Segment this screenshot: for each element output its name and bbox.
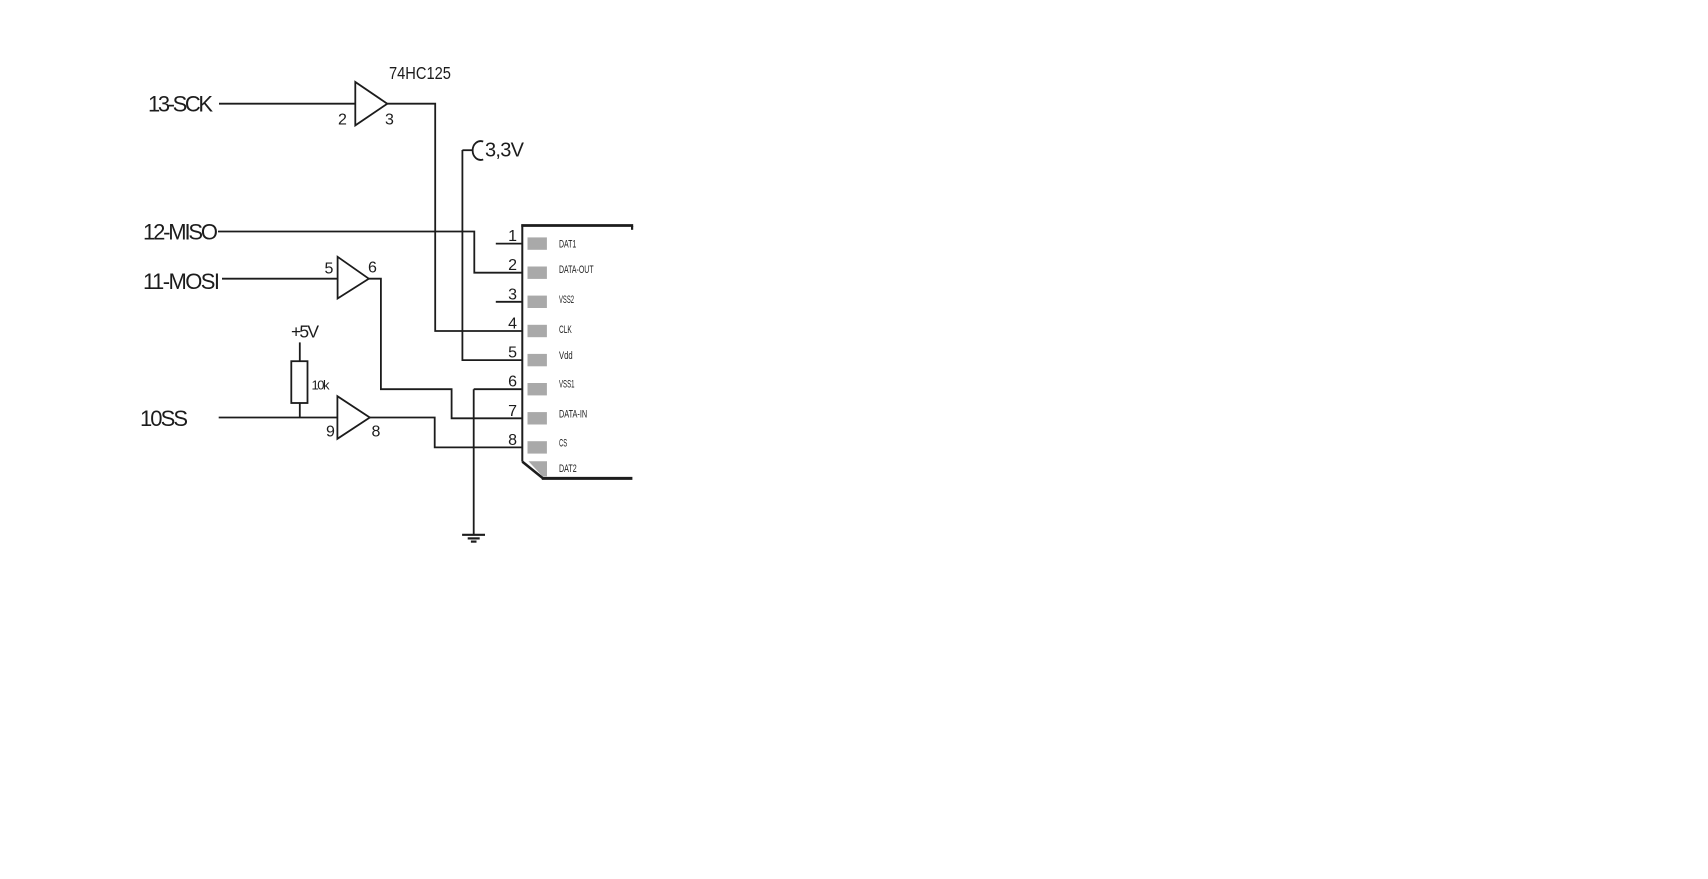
svg-text:8: 8 xyxy=(508,432,517,449)
svg-text:7: 7 xyxy=(508,403,517,420)
svg-text:VSS2: VSS2 xyxy=(559,293,574,305)
svg-text:8: 8 xyxy=(372,423,381,440)
svg-text:3: 3 xyxy=(508,286,517,303)
svg-text:+5V: +5V xyxy=(291,321,319,341)
svg-text:DAT1: DAT1 xyxy=(559,238,576,250)
svg-text:Vdd: Vdd xyxy=(559,350,573,361)
svg-text:DATA-OUT: DATA-OUT xyxy=(559,263,594,275)
svg-text:3,3V: 3,3V xyxy=(485,140,525,162)
svg-text:11-MOSI: 11-MOSI xyxy=(143,269,219,294)
svg-text:2: 2 xyxy=(508,257,517,274)
svg-text:CS: CS xyxy=(559,437,567,449)
svg-text:CLK: CLK xyxy=(559,323,572,335)
svg-text:10SS: 10SS xyxy=(140,406,187,431)
svg-text:6: 6 xyxy=(508,374,517,391)
svg-text:5: 5 xyxy=(508,345,517,362)
svg-text:10k: 10k xyxy=(312,378,330,393)
svg-text:DAT2: DAT2 xyxy=(559,463,577,475)
svg-text:4: 4 xyxy=(508,315,517,332)
svg-text:2: 2 xyxy=(338,112,347,129)
svg-text:3: 3 xyxy=(385,112,394,129)
svg-text:9: 9 xyxy=(326,423,335,440)
svg-text:DATA-IN: DATA-IN xyxy=(559,408,587,420)
svg-text:13-SCK: 13-SCK xyxy=(148,92,213,117)
svg-text:1: 1 xyxy=(508,228,517,245)
svg-text:5: 5 xyxy=(325,261,334,278)
svg-text:6: 6 xyxy=(368,259,377,276)
svg-text:12-MISO: 12-MISO xyxy=(143,220,218,245)
svg-text:VSS1: VSS1 xyxy=(559,378,575,390)
svg-text:74HC125: 74HC125 xyxy=(389,65,451,83)
